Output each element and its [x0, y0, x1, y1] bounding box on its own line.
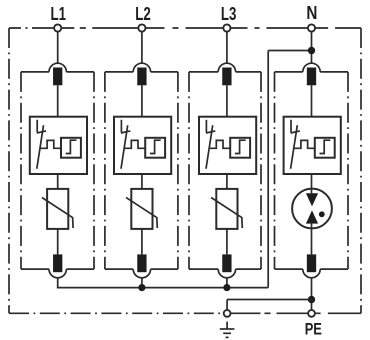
wire varistor to bottom disconnector, module L3 [226, 229, 228, 255]
disconnect switch symbol, module L3: tick [206, 131, 215, 133]
terminal L3 [223, 24, 230, 31]
step waveform in indicator window, module L1 [66, 140, 77, 153]
wire gas discharge tube to bottom disconnector [311, 224, 313, 255]
wire indicator box to arrester element, module L3 [226, 174, 228, 189]
status indicator box of module L3 [199, 117, 256, 174]
varistor diagonal stroke, module L2 [126, 198, 157, 229]
svg-text:L1: L1 [51, 3, 67, 24]
thermal disconnector (bottom) of module N: fuse body [307, 254, 316, 272]
disconnect switch symbol, module L2: blade [121, 125, 128, 169]
thermal disconnector (top) of module L1: fuse body [53, 68, 62, 86]
varistor diagonal stroke, module L3 [211, 198, 242, 229]
svg-text:L3: L3 [221, 3, 237, 24]
wire indicator box to arrester element, module N [311, 174, 313, 193]
common varistor bus wire [57, 287, 268, 289]
node: junction on N conductor [308, 47, 315, 54]
wire L2 terminal down to thermal disconnector [141, 32, 143, 64]
wire varistor to bottom disconnector, module L1 [57, 229, 59, 255]
wire N module bottom to PE node [311, 278, 313, 310]
indicator window, module N [315, 138, 335, 158]
wire disconnector to status indicator, module N [311, 85, 313, 116]
signal pulse line, module L3 [209, 140, 230, 148]
wire PE node to earth terminal [227, 299, 311, 301]
step waveform in indicator window, module L2 [150, 140, 161, 153]
status indicator box of module L1 [30, 117, 87, 174]
outer device enclosure border, left edge [8, 28, 10, 313]
module enclosure L3 left edge (dash-dot) [188, 72, 190, 269]
step waveform in indicator window, module L3 [235, 140, 246, 153]
wire indicator box to arrester element, module L1 [57, 174, 59, 189]
thermal disconnector (bottom) of module L1: fuse body [53, 254, 62, 272]
module enclosure L2 left edge (dash-dot) [104, 72, 106, 269]
outer device enclosure border, bottom edge segments [9, 312, 224, 314]
disconnect switch symbol, module L2: stub [120, 120, 122, 133]
node: bus junction under L3 [223, 284, 230, 291]
gas discharge tube (N-PE spark gap) circle [292, 189, 332, 229]
signal pulse line, module L2 [124, 140, 145, 148]
wire L3 terminal down to thermal disconnector [226, 32, 228, 64]
thermal disconnector (bottom) of module L1: bypass arc [49, 269, 66, 278]
module enclosure N left edge (dash-dot) [274, 72, 276, 269]
gas discharge tube lower electrode (triangle up) [306, 210, 318, 223]
terminal N [308, 24, 315, 31]
varistor of module L1 [47, 189, 68, 229]
varistor of module L2 [131, 189, 152, 229]
wire disconnector to status indicator, module L3 [226, 85, 228, 116]
gas discharge tube gas-filled indicator dot [319, 211, 325, 217]
module enclosure L1 left edge (dash-dot) [20, 72, 22, 269]
status indicator box of module N [284, 117, 341, 174]
node: N-PE junction [308, 296, 315, 303]
module enclosure L3 bottom edge segments [189, 268, 218, 270]
disconnect switch symbol, module N: tick [291, 131, 300, 133]
module enclosure N right edge (dash-dot) [347, 72, 349, 269]
module enclosure L1 top edge segments [21, 71, 49, 73]
disconnect switch symbol, module L1: stub [36, 120, 38, 133]
signal pulse line, module L1 [40, 140, 61, 148]
module enclosure L1 right edge (dash-dot) [93, 72, 95, 269]
terminal PE [308, 310, 315, 317]
wire L1 terminal down to thermal disconnector [57, 32, 59, 64]
step waveform in indicator window, module N [320, 140, 331, 153]
disconnect switch symbol, module L1: tick [37, 131, 46, 133]
disconnect switch symbol, module L3: stub [205, 120, 207, 133]
thermal disconnector (top) of module L1: bypass arc [49, 63, 66, 72]
module enclosure N top edge segments [275, 71, 303, 73]
thermal disconnector (bottom) of module L2: fuse body [137, 254, 146, 272]
terminal L2 [138, 24, 145, 31]
module enclosure N bottom edge segments [275, 268, 303, 270]
outer device enclosure border (dash-dot), top edge segments [9, 27, 54, 29]
terminal L1 [54, 24, 61, 31]
thermal disconnector (top) of module L2: fuse body [137, 68, 146, 86]
wire bus riser up to N node [267, 51, 269, 288]
svg-text:L2: L2 [135, 3, 151, 24]
varistor of module L3 [216, 189, 237, 229]
disconnect switch symbol, module N: blade [291, 125, 298, 169]
wire indicator box to arrester element, module L2 [141, 174, 143, 189]
outer device enclosure border, right edge [360, 28, 362, 313]
node: bus junction under L2 [138, 284, 145, 291]
module enclosure L3 top edge segments [189, 71, 218, 73]
wire disconnector to status indicator, module L1 [57, 85, 59, 116]
disconnect switch symbol, module L1: blade [37, 125, 44, 169]
disconnect switch symbol, module L3: blade [206, 125, 213, 169]
svg-text:N: N [306, 2, 317, 23]
varistor diagonal stroke, module L1 [42, 198, 73, 229]
gas discharge tube upper electrode (triangle down) [306, 193, 318, 206]
wire N terminal down to thermal disconnector [311, 32, 313, 64]
signal pulse line, module N [294, 140, 315, 148]
disconnect switch symbol, module L2: tick [121, 131, 130, 133]
indicator window, module L1 [61, 138, 81, 158]
thermal disconnector (bottom) of module N: bypass arc [303, 269, 320, 278]
module enclosure L2 bottom edge segments [105, 268, 133, 270]
wire riser to N junction [268, 50, 311, 52]
wire disconnector to status indicator, module L2 [141, 85, 143, 116]
svg-text:PE: PE [305, 320, 322, 338]
thermal disconnector (top) of module L3: fuse body [222, 68, 231, 86]
module enclosure L1 bottom edge segments [21, 268, 49, 270]
wire L1 bottom disconnector to common bus [57, 278, 59, 288]
earth terminal circle [224, 310, 231, 317]
status indicator box of module L2 [114, 117, 171, 174]
thermal disconnector (top) of module L2: bypass arc [133, 63, 150, 72]
module enclosure L2 top edge segments [105, 71, 133, 73]
thermal disconnector (bottom) of module L3: fuse body [222, 254, 231, 272]
module enclosure L2 right edge (dash-dot) [177, 72, 179, 269]
thermal disconnector (bottom) of module L2: bypass arc [133, 269, 150, 278]
indicator window, module L3 [230, 138, 250, 158]
disconnect switch symbol, module N: stub [290, 120, 292, 133]
wire L2 bottom disconnector to common bus [141, 278, 143, 288]
thermal disconnector (top) of module L3: bypass arc [218, 63, 235, 72]
wire L3 bottom disconnector to common bus [226, 278, 228, 288]
thermal disconnector (top) of module N: fuse body [307, 68, 316, 86]
thermal disconnector (bottom) of module L3: bypass arc [218, 269, 235, 278]
wire varistor to bottom disconnector, module L2 [141, 229, 143, 255]
indicator window, module L2 [145, 138, 165, 158]
module enclosure L3 right edge (dash-dot) [260, 72, 262, 269]
ground symbol [220, 322, 235, 338]
thermal disconnector (top) of module N: bypass arc [303, 63, 320, 72]
